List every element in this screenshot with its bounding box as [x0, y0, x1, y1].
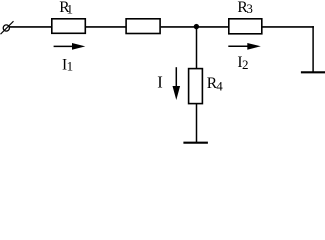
- resistor R3: [229, 19, 262, 34]
- wire node to R4: [196, 27, 198, 69]
- svg-text:I: I: [157, 72, 163, 91]
- wire right vertical: [312, 26, 314, 72]
- wire R3 to right corner: [262, 26, 314, 28]
- wire terminal to R1: [9, 26, 52, 28]
- ground bottom: [183, 142, 208, 144]
- svg-text:R4: R4: [207, 75, 223, 93]
- resistor R1: [52, 19, 86, 34]
- ground right: [301, 71, 325, 73]
- resistor R4: [189, 69, 203, 104]
- svg-text:R1: R1: [59, 0, 73, 16]
- svg-text:R3: R3: [237, 0, 252, 16]
- input terminal: [1, 21, 14, 34]
- current arrow I2: [228, 43, 260, 50]
- resistor R2: [126, 19, 160, 34]
- node junction: [194, 24, 199, 29]
- svg-text:I1: I1: [62, 56, 73, 73]
- svg-text:I2: I2: [237, 54, 248, 72]
- current arrow I (down): [173, 67, 181, 100]
- wire R2 to R3: [161, 26, 229, 28]
- current arrow I1: [54, 43, 86, 50]
- wire R4 to ground: [196, 104, 198, 143]
- wire R1 to R2: [86, 26, 126, 28]
